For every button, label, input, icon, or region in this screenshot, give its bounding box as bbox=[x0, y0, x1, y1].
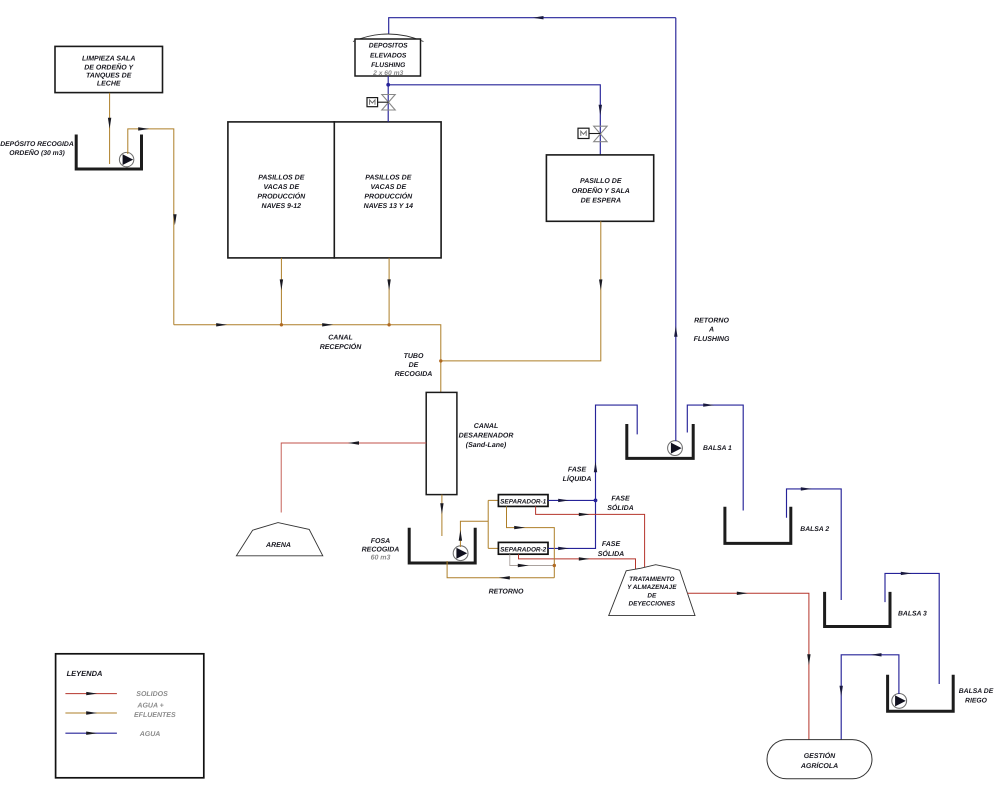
svg-text:FASE: FASE bbox=[602, 541, 621, 548]
wire balsa 3 overflow to balsa de riego (agua) bbox=[885, 572, 939, 684]
wire balsa 1 overflow to balsa 2 (agua) bbox=[687, 403, 743, 510]
wire separador-1 fase solida (solidos) bbox=[536, 506, 645, 567]
wire separador-2 fase solida (solidos) bbox=[519, 554, 636, 569]
label RETORNO A FLUSHING bbox=[694, 317, 730, 342]
svg-text:FASE: FASE bbox=[568, 466, 587, 473]
svg-text:PASILLO DE: PASILLO DE bbox=[580, 178, 622, 185]
tank DEPOSITOS ELEVADOS FLUSHING bbox=[353, 34, 424, 77]
svg-text:Y ALMAZENAJE: Y ALMAZENAJE bbox=[627, 584, 677, 591]
wire canal desarenador to fosa (agua+efluentes) bbox=[440, 495, 443, 536]
svg-text:ORDEÑO (30 m3): ORDEÑO (30 m3) bbox=[9, 148, 65, 157]
svg-text:PASILLOS DE: PASILLOS DE bbox=[365, 174, 411, 181]
svg-text:SOLIDOS: SOLIDOS bbox=[136, 691, 168, 698]
svg-text:SÓLIDA: SÓLIDA bbox=[598, 549, 624, 558]
wire separador-1 fase liquida (agua) bbox=[548, 499, 596, 502]
svg-text:NAVES 13 Y 14: NAVES 13 Y 14 bbox=[364, 203, 414, 210]
shape GESTION AGRICOLA bbox=[767, 740, 872, 779]
svg-text:2 x 60 m3: 2 x 60 m3 bbox=[372, 70, 403, 77]
box LIMPIEZA SALA bbox=[55, 46, 163, 92]
svg-text:DE ESPERA: DE ESPERA bbox=[581, 198, 621, 205]
svg-text:A: A bbox=[708, 327, 714, 334]
pump P1 in deposito recogida bbox=[119, 152, 133, 166]
node junction fase liquida bbox=[594, 499, 598, 503]
svg-text:DESARENADOR: DESARENADOR bbox=[459, 433, 514, 440]
tank BALSA 1 bbox=[627, 424, 732, 458]
svg-text:GESTIÓN: GESTIÓN bbox=[804, 751, 836, 760]
label FOSA RECOGIDA 60 m3 bbox=[362, 538, 400, 562]
node junction tubo de recogida bbox=[439, 359, 442, 362]
wire pasillos 13-14 down to canal (agua+efluentes) bbox=[387, 258, 390, 325]
svg-text:(Sand-Lane): (Sand-Lane) bbox=[466, 441, 507, 449]
tank BALSA DE RIEGO bbox=[888, 675, 994, 711]
wire pump P2 to separadores feed (agua+efluentes) bbox=[459, 521, 489, 547]
wire separadores feed manifold (agua+efluentes) bbox=[488, 500, 498, 548]
svg-text:60 m3: 60 m3 bbox=[371, 555, 391, 562]
wire retorno flushing top (agua) bbox=[389, 16, 676, 34]
svg-text:TANQUES DE: TANQUES DE bbox=[86, 73, 132, 80]
legend box LEYENDA bbox=[56, 654, 204, 778]
legend agua sample wire bbox=[65, 731, 160, 738]
svg-text:EFLUENTES: EFLUENTES bbox=[134, 712, 176, 719]
svg-text:DEYECCIONES: DEYECCIONES bbox=[629, 601, 676, 608]
tank fosa recogida bbox=[409, 528, 475, 563]
svg-text:CANAL: CANAL bbox=[474, 423, 499, 430]
svg-text:LECHE: LECHE bbox=[97, 80, 121, 87]
svg-text:ORDEÑO Y SALA: ORDEÑO Y SALA bbox=[572, 186, 630, 195]
svg-text:VACAS DE: VACAS DE bbox=[263, 184, 299, 191]
svg-text:DE: DE bbox=[409, 362, 419, 369]
pump P2 in fosa recogida bbox=[453, 546, 468, 561]
svg-text:PASILLOS DE: PASILLOS DE bbox=[258, 174, 304, 181]
svg-text:RIEGO: RIEGO bbox=[965, 697, 988, 704]
svg-text:BALSA DE: BALSA DE bbox=[959, 688, 994, 695]
svg-text:VACAS DE: VACAS DE bbox=[370, 184, 406, 191]
svg-text:SEPARADOR-2: SEPARADOR-2 bbox=[500, 546, 546, 553]
valve V1 with actuator M bbox=[367, 95, 395, 111]
wire separador-2 retorno stub (gris) bbox=[510, 554, 555, 567]
svg-text:RETORNO: RETORNO bbox=[489, 588, 524, 595]
svg-text:RETORNO: RETORNO bbox=[694, 317, 729, 324]
svg-text:NAVES 9-12: NAVES 9-12 bbox=[262, 203, 302, 210]
svg-text:LEYENDA: LEYENDA bbox=[67, 669, 103, 678]
svg-text:DEPÓSITO RECOGIDA: DEPÓSITO RECOGIDA bbox=[0, 140, 74, 148]
wire balsa de riego pump to gestion agricola (agua) bbox=[840, 653, 899, 740]
tank BALSA 2 bbox=[725, 507, 829, 544]
node junction canal recepcion 1 bbox=[280, 323, 283, 326]
wire depositos branch to pasillo ordeño (agua) bbox=[388, 85, 602, 155]
svg-text:AGUA +: AGUA + bbox=[136, 703, 163, 710]
wire canal desarenador to arena (solidos) bbox=[281, 441, 426, 512]
pump P4 in balsa de riego bbox=[892, 694, 907, 709]
shape ARENA pile bbox=[236, 523, 322, 556]
svg-text:SÓLIDA: SÓLIDA bbox=[607, 503, 633, 512]
valve V2 with actuator M bbox=[578, 126, 607, 142]
box PASILLOS NAVES 13 Y 14 bbox=[334, 122, 441, 258]
svg-text:CANAL: CANAL bbox=[328, 334, 353, 341]
label FASE SOLIDA 1 bbox=[607, 496, 633, 512]
shape TRATAMIENTO Y ALMAZENAJE pile bbox=[609, 565, 695, 616]
svg-text:DEPOSITOS: DEPOSITOS bbox=[369, 43, 408, 50]
svg-text:LÍQUIDA: LÍQUIDA bbox=[563, 474, 592, 483]
node junction depositos outlet bbox=[386, 83, 390, 87]
wire retorno to fosa (agua+efluentes) bbox=[447, 561, 554, 580]
svg-text:FOSA: FOSA bbox=[371, 538, 390, 545]
wire pump P1 to canal recepcion (agua+efluentes) bbox=[128, 127, 177, 325]
svg-text:BALSA 3: BALSA 3 bbox=[898, 611, 927, 618]
label FASE SOLIDA 2 bbox=[598, 541, 624, 558]
svg-text:PRODUCCIÓN: PRODUCCIÓN bbox=[257, 191, 306, 200]
label CANAL RECEPCION bbox=[320, 334, 363, 351]
svg-text:FLUSHING: FLUSHING bbox=[371, 62, 405, 69]
box SEPARADOR-1 bbox=[498, 495, 548, 507]
pump P3 in balsa 1 bbox=[668, 441, 683, 456]
svg-text:AGRÍCOLA: AGRÍCOLA bbox=[800, 761, 838, 770]
wire pasillo ordeño down and left to tubo (agua+efluentes) bbox=[441, 221, 603, 361]
node junction retorno bbox=[553, 564, 556, 567]
wire depositos down to pasillos 13-14 (agua) bbox=[387, 76, 389, 122]
svg-text:ELEVADOS: ELEVADOS bbox=[370, 52, 407, 59]
svg-text:DE ORDEÑO Y: DE ORDEÑO Y bbox=[84, 62, 134, 71]
label FASE LIQUIDA bbox=[563, 466, 592, 483]
label TUBO DE RECOGIDA bbox=[395, 353, 433, 378]
svg-text:DE: DE bbox=[647, 592, 657, 599]
svg-text:FLUSHING: FLUSHING bbox=[694, 336, 730, 343]
label DEPOSITO RECOGIDA ORDEÑO bbox=[0, 140, 74, 157]
wire separador-2 fase liquida (agua) bbox=[548, 500, 596, 550]
svg-text:TRATAMIENTO: TRATAMIENTO bbox=[629, 576, 674, 583]
svg-text:BALSA 1: BALSA 1 bbox=[703, 445, 732, 452]
svg-text:BALSA 2: BALSA 2 bbox=[800, 526, 829, 533]
svg-text:RECEPCIÓN: RECEPCIÓN bbox=[320, 342, 363, 351]
svg-text:RECOGIDA: RECOGIDA bbox=[395, 371, 433, 378]
wire separador-1 retorno drop (agua+efluentes) bbox=[507, 506, 555, 577]
svg-text:AGUA: AGUA bbox=[139, 731, 161, 738]
wire balsa 2 overflow to balsa 3 (agua) bbox=[787, 487, 842, 600]
svg-text:SEPARADOR-1: SEPARADOR-1 bbox=[500, 499, 546, 506]
wire limpieza to deposito recogida (agua+efluentes) bbox=[108, 93, 111, 164]
svg-text:PRODUCCIÓN: PRODUCCIÓN bbox=[364, 191, 413, 200]
legend agua+efluentes sample wire bbox=[65, 703, 176, 719]
tank deposito recogida ordeño bbox=[76, 135, 141, 170]
legend solidos sample wire bbox=[65, 691, 168, 698]
svg-text:RECOGIDA: RECOGIDA bbox=[362, 547, 400, 554]
svg-text:TUBO: TUBO bbox=[404, 353, 424, 360]
box PASILLO DE ORDEÑO Y SALA DE ESPERA bbox=[546, 155, 653, 221]
svg-text:ARENA: ARENA bbox=[265, 542, 291, 549]
wire retorno a flushing (agua) bbox=[674, 18, 677, 441]
wire tratamiento to gestion agricola (solidos) bbox=[688, 592, 811, 740]
wire pasillos 9-12 down to canal (agua+efluentes) bbox=[280, 258, 283, 325]
svg-text:FASE: FASE bbox=[611, 496, 630, 503]
svg-text:LIMPIEZA SALA: LIMPIEZA SALA bbox=[82, 56, 135, 63]
wire fase liquida up to balsa 1 (agua) bbox=[594, 405, 637, 500]
node junction canal recepcion 2 bbox=[387, 323, 390, 326]
box PASILLOS NAVES 9-12 bbox=[228, 122, 334, 258]
canal desarenador vessel bbox=[426, 392, 513, 494]
box SEPARADOR-2 bbox=[498, 542, 548, 554]
wire canal recepcion horizontal (agua+efluentes) bbox=[174, 323, 441, 392]
tank BALSA 3 bbox=[825, 592, 927, 627]
